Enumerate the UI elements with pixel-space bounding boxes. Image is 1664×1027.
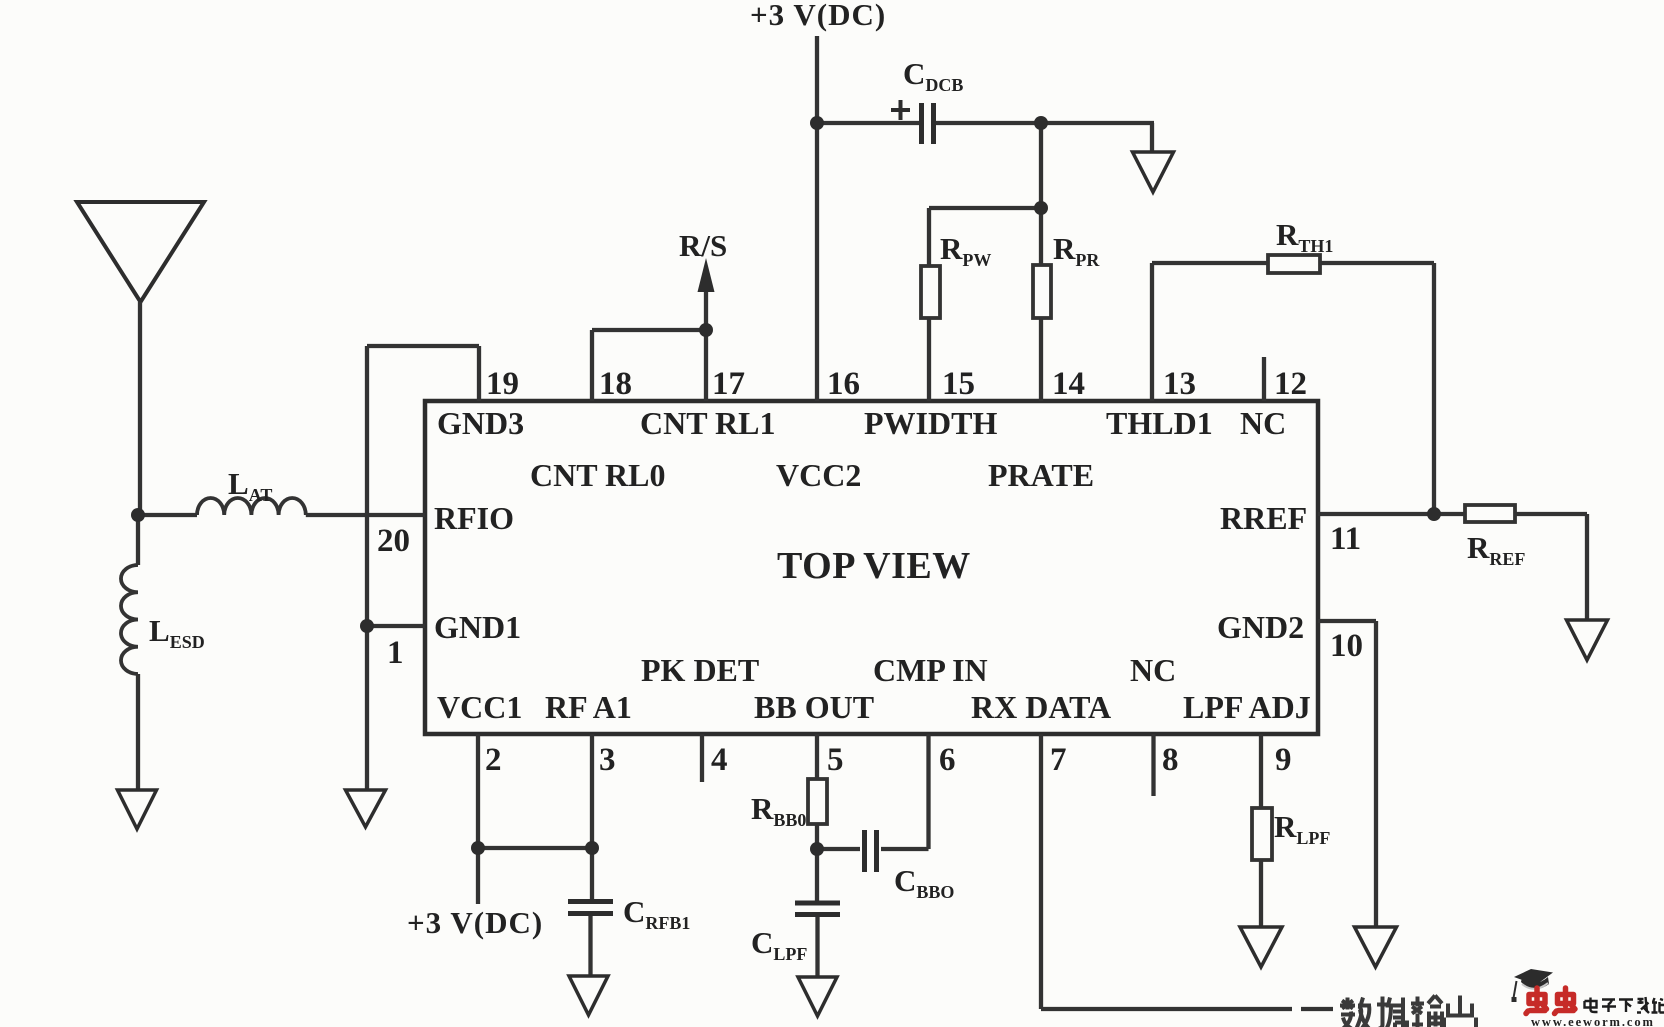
svg-text:GND3: GND3 — [437, 405, 524, 441]
svg-text:RFIO: RFIO — [434, 500, 514, 536]
svg-text:PWIDTH: PWIDTH — [864, 405, 997, 441]
svg-text:CNT RL1: CNT RL1 — [640, 405, 775, 441]
svg-text:BB OUT: BB OUT — [754, 689, 874, 725]
svg-text:4: 4 — [711, 742, 728, 778]
svg-text:19: 19 — [486, 366, 519, 402]
svg-text:RX DATA: RX DATA — [971, 689, 1111, 725]
svg-text:+3 V(DC): +3 V(DC) — [750, 0, 886, 32]
svg-text:www.eeworm.com: www.eeworm.com — [1531, 1015, 1655, 1027]
svg-text:17: 17 — [712, 366, 745, 402]
svg-text:GND2: GND2 — [1217, 609, 1304, 645]
svg-text:RF A1: RF A1 — [545, 689, 632, 725]
svg-text:18: 18 — [599, 366, 632, 402]
svg-text:15: 15 — [942, 366, 975, 402]
svg-text:TOP VIEW: TOP VIEW — [777, 545, 971, 587]
svg-text:8: 8 — [1162, 742, 1179, 778]
svg-text:7: 7 — [1050, 742, 1067, 778]
svg-text:13: 13 — [1163, 366, 1196, 402]
svg-text:14: 14 — [1052, 366, 1085, 402]
svg-text:9: 9 — [1275, 742, 1292, 778]
svg-text:2: 2 — [485, 742, 502, 778]
svg-text:RREF: RREF — [1220, 500, 1307, 536]
svg-text:NC: NC — [1240, 405, 1286, 441]
svg-text:GND1: GND1 — [434, 609, 521, 645]
svg-text:+3 V(DC): +3 V(DC) — [407, 905, 543, 940]
svg-text:CMP IN: CMP IN — [873, 652, 988, 688]
svg-text:NC: NC — [1130, 652, 1176, 688]
svg-text:1: 1 — [387, 635, 404, 671]
svg-text:R/S: R/S — [679, 228, 727, 263]
svg-text:20: 20 — [377, 523, 410, 559]
svg-text:VCC1: VCC1 — [437, 689, 522, 725]
svg-text:LPF ADJ: LPF ADJ — [1183, 689, 1311, 725]
svg-text:11: 11 — [1330, 521, 1361, 557]
svg-text:12: 12 — [1274, 366, 1307, 402]
svg-text:16: 16 — [827, 366, 860, 402]
svg-text:CNT RL0: CNT RL0 — [530, 457, 665, 493]
svg-text:6: 6 — [939, 742, 956, 778]
svg-text:10: 10 — [1330, 628, 1363, 664]
svg-text:3: 3 — [599, 742, 616, 778]
svg-text:VCC2: VCC2 — [776, 457, 861, 493]
svg-text:PRATE: PRATE — [988, 457, 1094, 493]
svg-text:THLD1: THLD1 — [1106, 405, 1213, 441]
svg-text:5: 5 — [827, 742, 844, 778]
svg-text:PK DET: PK DET — [641, 652, 759, 688]
